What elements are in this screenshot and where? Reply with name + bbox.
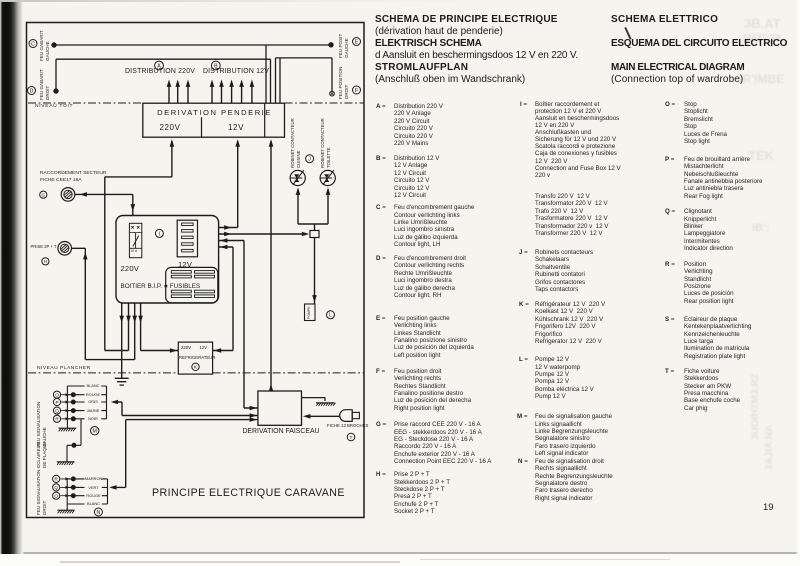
svg-text:L: L bbox=[329, 313, 332, 319]
svg-text:E: E bbox=[355, 39, 359, 45]
svg-text:Q: Q bbox=[54, 485, 58, 490]
svg-text:O: O bbox=[55, 393, 59, 398]
svg-text:T: T bbox=[350, 435, 353, 441]
svg-text:J: J bbox=[308, 157, 311, 163]
svg-text:F: F bbox=[355, 88, 358, 94]
svg-text:M: M bbox=[93, 429, 97, 435]
svg-text:B: B bbox=[214, 63, 218, 69]
svg-text:D: D bbox=[30, 88, 34, 94]
svg-text:Q: Q bbox=[55, 408, 59, 413]
svg-text:R: R bbox=[55, 477, 59, 482]
svg-text:R: R bbox=[55, 417, 59, 422]
svg-text:N: N bbox=[97, 510, 101, 516]
svg-text:G: G bbox=[42, 193, 46, 198]
svg-text:O: O bbox=[54, 494, 58, 499]
svg-text:H: H bbox=[44, 259, 47, 264]
svg-text:C: C bbox=[31, 41, 35, 47]
svg-text:P: P bbox=[55, 400, 58, 405]
svg-text:I: I bbox=[159, 231, 160, 237]
svg-text:A: A bbox=[157, 63, 161, 69]
